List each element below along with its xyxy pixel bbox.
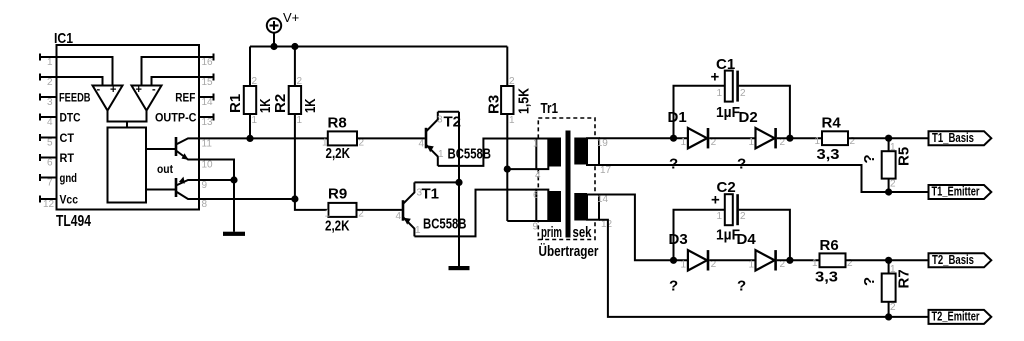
svg-text:-: - xyxy=(152,84,156,96)
resistor R7 xyxy=(861,260,913,317)
svg-text:T2_Basis: T2_Basis xyxy=(932,253,974,267)
wire D3 to D4 xyxy=(709,259,755,261)
pin 6 stub RT xyxy=(40,151,75,169)
pin 12 stub Vcc xyxy=(40,192,78,210)
wire T1 collector to common collector column xyxy=(414,181,459,183)
svg-text:?: ? xyxy=(737,278,746,295)
svg-text:BC558B: BC558B xyxy=(448,146,492,163)
svg-text:T1_Emitter: T1_Emitter xyxy=(932,185,980,199)
pin 16 stub xyxy=(199,54,214,69)
svg-text:2: 2 xyxy=(740,88,746,99)
wire R4 to T1_Basis xyxy=(848,137,929,139)
svg-text:3,3: 3,3 xyxy=(815,269,838,286)
diode D2 xyxy=(737,109,786,173)
pin 13 stub OUTP-C xyxy=(155,110,214,128)
node R3 pin4 junction xyxy=(504,166,511,173)
svg-text:T1_Basis: T1_Basis xyxy=(932,131,974,145)
comparator 1 inside IC1 xyxy=(93,84,123,111)
svg-text:+: + xyxy=(110,84,116,96)
node R1 bottom junction xyxy=(246,135,253,142)
tag T2_Basis xyxy=(929,253,992,267)
svg-text:7: 7 xyxy=(47,178,53,189)
svg-text:1: 1 xyxy=(717,211,723,222)
svg-text:1: 1 xyxy=(749,137,755,148)
svg-text:1: 1 xyxy=(297,115,303,126)
ground (transistor collectors) xyxy=(449,266,470,270)
svg-text:8: 8 xyxy=(202,199,208,210)
svg-text:1: 1 xyxy=(812,258,818,269)
wire pin11 to R8 xyxy=(199,137,328,139)
svg-text:1: 1 xyxy=(322,138,328,149)
primary winding bottom xyxy=(533,190,562,233)
node pin9 junction xyxy=(230,176,237,183)
svg-text:1K: 1K xyxy=(302,98,319,113)
node R7 top junction xyxy=(885,257,892,264)
pwm block inside IC1 xyxy=(108,128,147,203)
node R2 top xyxy=(291,43,298,50)
wire pin9 to ground column xyxy=(199,179,234,181)
svg-text:R3: R3 xyxy=(486,95,503,114)
wire pin8 to R9 xyxy=(199,199,328,210)
node R7 bottom junction xyxy=(885,313,892,320)
wire secondary pin17 to T1_Emitter xyxy=(599,165,929,192)
svg-text:1: 1 xyxy=(890,264,896,275)
node common collector junction xyxy=(455,179,462,186)
resistor R3 xyxy=(486,47,533,222)
svg-text:FEEDB: FEEDB xyxy=(59,90,91,104)
diode D4 xyxy=(737,231,786,295)
svg-text:BC558B: BC558B xyxy=(423,215,467,232)
svg-text:4: 4 xyxy=(47,117,53,128)
pin 1 stub xyxy=(40,54,57,69)
node R2 bottom junction xyxy=(291,195,298,202)
wire D1 to D2 xyxy=(709,137,755,139)
svg-text:1µF: 1µF xyxy=(716,227,740,244)
svg-text:+: + xyxy=(711,69,720,86)
svg-text:10: 10 xyxy=(202,160,214,171)
svg-text:?: ? xyxy=(861,154,878,163)
pin 2 stub xyxy=(40,74,57,89)
pin 4 stub DTC xyxy=(40,110,81,128)
transistor T2 xyxy=(419,112,492,166)
node V+ drop xyxy=(270,43,277,50)
svg-text:1: 1 xyxy=(815,136,821,147)
svg-text:6: 6 xyxy=(47,158,53,169)
pin 5 stub CT xyxy=(40,131,75,149)
svg-text:+: + xyxy=(711,192,720,209)
wire R3 to primary pin4 xyxy=(507,168,536,170)
svg-text:R8: R8 xyxy=(328,115,347,132)
V+ supply symbol xyxy=(267,10,299,33)
svg-text:1,5K: 1,5K xyxy=(516,88,533,114)
svg-text:19: 19 xyxy=(597,138,609,149)
node R5 top junction xyxy=(885,135,892,142)
svg-text:1: 1 xyxy=(749,259,755,270)
op-amp U1 (IC1 TL494 body) xyxy=(54,30,199,230)
svg-text:R6: R6 xyxy=(820,237,839,254)
svg-text:1: 1 xyxy=(533,139,539,150)
svg-text:3,3: 3,3 xyxy=(817,146,840,163)
wire T2 emitter to primary pin1 xyxy=(438,139,537,166)
svg-text:T1: T1 xyxy=(422,186,440,203)
node C1 right junction xyxy=(786,135,793,142)
svg-text:1: 1 xyxy=(681,259,687,270)
svg-text:OUTP-C: OUTP-C xyxy=(155,110,197,124)
ground (IC outputs) xyxy=(223,232,245,236)
svg-text:4: 4 xyxy=(535,170,541,181)
svg-text:13: 13 xyxy=(202,117,214,128)
svg-text:2,2K: 2,2K xyxy=(326,145,351,162)
svg-text:4: 4 xyxy=(419,139,425,150)
primary winding top xyxy=(533,138,561,182)
svg-text:+: + xyxy=(136,84,142,96)
svg-text:?: ? xyxy=(669,156,678,173)
svg-text:R9: R9 xyxy=(328,186,347,203)
svg-text:1: 1 xyxy=(717,88,723,99)
wire D2 to R4 xyxy=(777,137,822,139)
internal transistor Qb base wire xyxy=(146,189,176,191)
wire common collector column to ground xyxy=(458,112,460,266)
tag T1_Basis xyxy=(929,131,992,145)
svg-text:1: 1 xyxy=(325,209,331,220)
svg-text:9: 9 xyxy=(202,180,208,191)
svg-text:Vcc: Vcc xyxy=(60,192,79,206)
wire T1 emitter to primary pin6 xyxy=(414,190,536,237)
transistor T1 xyxy=(396,182,467,236)
svg-text:gnd: gnd xyxy=(60,171,78,185)
wire T2 collector to common collector column xyxy=(438,111,459,113)
resistor R2 xyxy=(272,47,319,200)
svg-text:1: 1 xyxy=(509,115,515,126)
svg-text:2: 2 xyxy=(890,179,896,190)
svg-text:?: ? xyxy=(669,278,678,295)
svg-text:?: ? xyxy=(737,156,746,173)
wire R3 column to primary pin9 xyxy=(507,220,536,222)
secondary winding top xyxy=(574,138,611,176)
svg-text:1: 1 xyxy=(47,57,53,68)
svg-text:R2: R2 xyxy=(272,94,289,113)
wire pin2 to comparator1 minus xyxy=(57,77,103,86)
node C2 right junction xyxy=(786,257,793,264)
svg-text:D3: D3 xyxy=(669,231,688,248)
svg-text:3: 3 xyxy=(47,97,53,108)
pin 15 stub xyxy=(199,74,214,89)
svg-text:TL494: TL494 xyxy=(56,213,91,230)
resistor R6 xyxy=(812,237,853,286)
svg-text:R5: R5 xyxy=(896,147,913,166)
wire pin16 to comparator2 plus xyxy=(142,57,200,86)
node C1 left junction xyxy=(670,135,677,142)
resistor R1 xyxy=(227,47,274,139)
capacitor C2 xyxy=(674,179,790,260)
svg-text:2: 2 xyxy=(890,302,896,313)
svg-text:9: 9 xyxy=(533,222,539,233)
resistor R8 xyxy=(322,115,365,163)
svg-text:16: 16 xyxy=(202,57,214,68)
diode D3 xyxy=(669,231,717,295)
svg-text:T2_Emitter: T2_Emitter xyxy=(932,310,980,324)
internal transistor Qb xyxy=(176,177,199,199)
svg-text:1: 1 xyxy=(415,225,421,236)
svg-text:2: 2 xyxy=(740,211,746,222)
svg-text:D1: D1 xyxy=(668,109,687,126)
svg-text:1µF: 1µF xyxy=(716,104,740,121)
svg-text:D2: D2 xyxy=(739,109,758,126)
svg-text:2,2K: 2,2K xyxy=(325,218,350,235)
pin 3 stub FEEDB xyxy=(40,90,91,108)
svg-text:5: 5 xyxy=(47,138,53,149)
resistor R5 xyxy=(861,138,913,192)
pin 7 stub gnd xyxy=(40,171,77,189)
wire pin15 to comparator2 minus xyxy=(152,77,200,86)
svg-text:2: 2 xyxy=(297,76,303,87)
svg-text:1: 1 xyxy=(681,137,687,148)
pin 14 stub REF xyxy=(175,90,213,108)
wire secondary pin14 to D3 row xyxy=(599,195,688,261)
svg-text:R4: R4 xyxy=(822,115,842,132)
svg-text:out: out xyxy=(157,162,173,176)
wire pin1 to comparator1 plus xyxy=(57,57,113,86)
capacitor C1 xyxy=(674,56,790,138)
svg-text:4: 4 xyxy=(396,211,402,222)
wire V+ to rail xyxy=(273,33,275,47)
wire pin10 to ground xyxy=(199,160,234,232)
svg-text:R1: R1 xyxy=(227,94,244,113)
svg-text:V+: V+ xyxy=(283,10,299,25)
tag T2_Emitter xyxy=(929,310,992,324)
svg-text:1: 1 xyxy=(252,115,258,126)
svg-text:REF: REF xyxy=(175,90,195,104)
svg-text:6: 6 xyxy=(533,190,539,201)
svg-text:?: ? xyxy=(861,277,878,286)
svg-text:prim: prim xyxy=(541,224,562,241)
wire secondary pin19 to D1 xyxy=(599,137,688,139)
wire R9 to T1 base xyxy=(357,209,402,211)
svg-text:15: 15 xyxy=(202,77,214,88)
svg-text:1: 1 xyxy=(890,142,896,153)
diode D1 xyxy=(668,109,717,173)
svg-text:14: 14 xyxy=(597,194,609,205)
wire D4 to R6 xyxy=(777,259,820,261)
wire V+ rail xyxy=(250,46,507,48)
resistor R4 xyxy=(815,115,856,164)
svg-text:Übertrager: Übertrager xyxy=(539,243,599,260)
node R5 bottom junction xyxy=(885,188,892,195)
svg-text:3: 3 xyxy=(417,188,423,199)
svg-text:CT: CT xyxy=(60,131,75,145)
comparator 2 inside IC1 xyxy=(132,84,162,111)
svg-text:sek: sek xyxy=(573,224,592,241)
wire R8 to T2 base xyxy=(357,137,425,139)
svg-text:2: 2 xyxy=(252,76,258,87)
svg-text:-: - xyxy=(97,84,101,96)
svg-text:Tr1: Tr1 xyxy=(541,100,559,117)
resistor R9 xyxy=(325,186,365,235)
svg-text:1: 1 xyxy=(438,149,444,160)
wire comparator outputs to pwm block xyxy=(108,111,147,128)
internal transistor Qa base wire xyxy=(146,148,176,150)
svg-text:RT: RT xyxy=(60,151,75,165)
transformer core xyxy=(566,131,571,238)
svg-text:R7: R7 xyxy=(896,269,913,288)
svg-text:2: 2 xyxy=(47,77,53,88)
svg-text:14: 14 xyxy=(202,97,214,108)
svg-text:IC1: IC1 xyxy=(54,30,73,47)
wire secondary pin12 to T2_Emitter xyxy=(599,220,929,317)
svg-text:11: 11 xyxy=(202,139,213,150)
secondary winding bottom xyxy=(574,193,612,230)
svg-text:12: 12 xyxy=(43,199,55,210)
internal transistor Qa xyxy=(176,137,199,160)
svg-text:17: 17 xyxy=(600,165,612,176)
tag T1_Emitter xyxy=(929,185,992,199)
wire R6 to T2_Basis xyxy=(846,259,929,261)
svg-text:3: 3 xyxy=(437,115,443,126)
transformer Tr1 dashed box xyxy=(538,100,598,260)
node C2 left junction xyxy=(670,257,677,264)
svg-text:2: 2 xyxy=(509,76,515,87)
svg-text:DTC: DTC xyxy=(60,110,81,124)
